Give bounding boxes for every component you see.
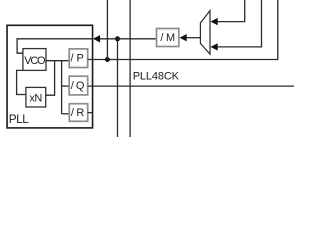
wire: vertical from input junction down to bottom edge — [117, 39, 119, 137]
divider /Q box — [69, 76, 88, 95]
wire: mux output to /M — [186, 37, 200, 39]
arrowhead into /M — [180, 34, 187, 41]
wire: mux input 1 from top edge — [217, 0, 245, 22]
wire: /R output stub — [88, 112, 93, 114]
arrowhead into PLL — [93, 35, 100, 42]
svg-text:xN: xN — [29, 93, 42, 105]
wire: feedback tap down to xN right side — [46, 61, 55, 95]
arrowhead into mux input 2 — [211, 43, 218, 50]
svg-text:/ P: / P — [71, 53, 84, 65]
wire: /M output to PLL input — [100, 38, 157, 40]
wire: divider bus down from VCO output — [61, 61, 63, 114]
mux clock-source selector — [200, 11, 210, 55]
divider /P box — [69, 49, 88, 68]
wire: xN left loop up to VCO bottom — [17, 70, 26, 94]
wire: VCO output to /P — [46, 60, 69, 62]
svg-text:/ R: / R — [71, 107, 84, 119]
divider /R box — [69, 104, 87, 122]
wire: vertical from top edge to /P output junction — [106, 0, 108, 60]
VCO box — [23, 49, 46, 71]
wire: bus to /R input — [62, 113, 70, 115]
xN box — [26, 87, 46, 107]
/M box — [157, 29, 179, 47]
PLL block outer box — [7, 25, 93, 128]
wire: /P output to right riser — [88, 0, 278, 60]
junction dot on /P output line — [105, 57, 110, 62]
svg-text:/ M: / M — [160, 32, 175, 44]
svg-text:PLL48CK: PLL48CK — [133, 71, 180, 83]
svg-text:PLL: PLL — [9, 112, 29, 126]
svg-text:VCO: VCO — [24, 55, 46, 67]
junction dot on PLL input line — [115, 36, 120, 41]
arrowhead into mux input 1 — [211, 18, 218, 25]
wire: full-height vertical — [129, 0, 131, 137]
svg-text:/ Q: / Q — [71, 80, 85, 92]
wire: PLL input run to VCO — [17, 39, 92, 53]
wire: bus to /Q input — [62, 85, 70, 87]
wire: mux input 2 from top edge — [217, 0, 262, 47]
wire: /Q output PLL48CK line to right edge — [88, 85, 294, 87]
